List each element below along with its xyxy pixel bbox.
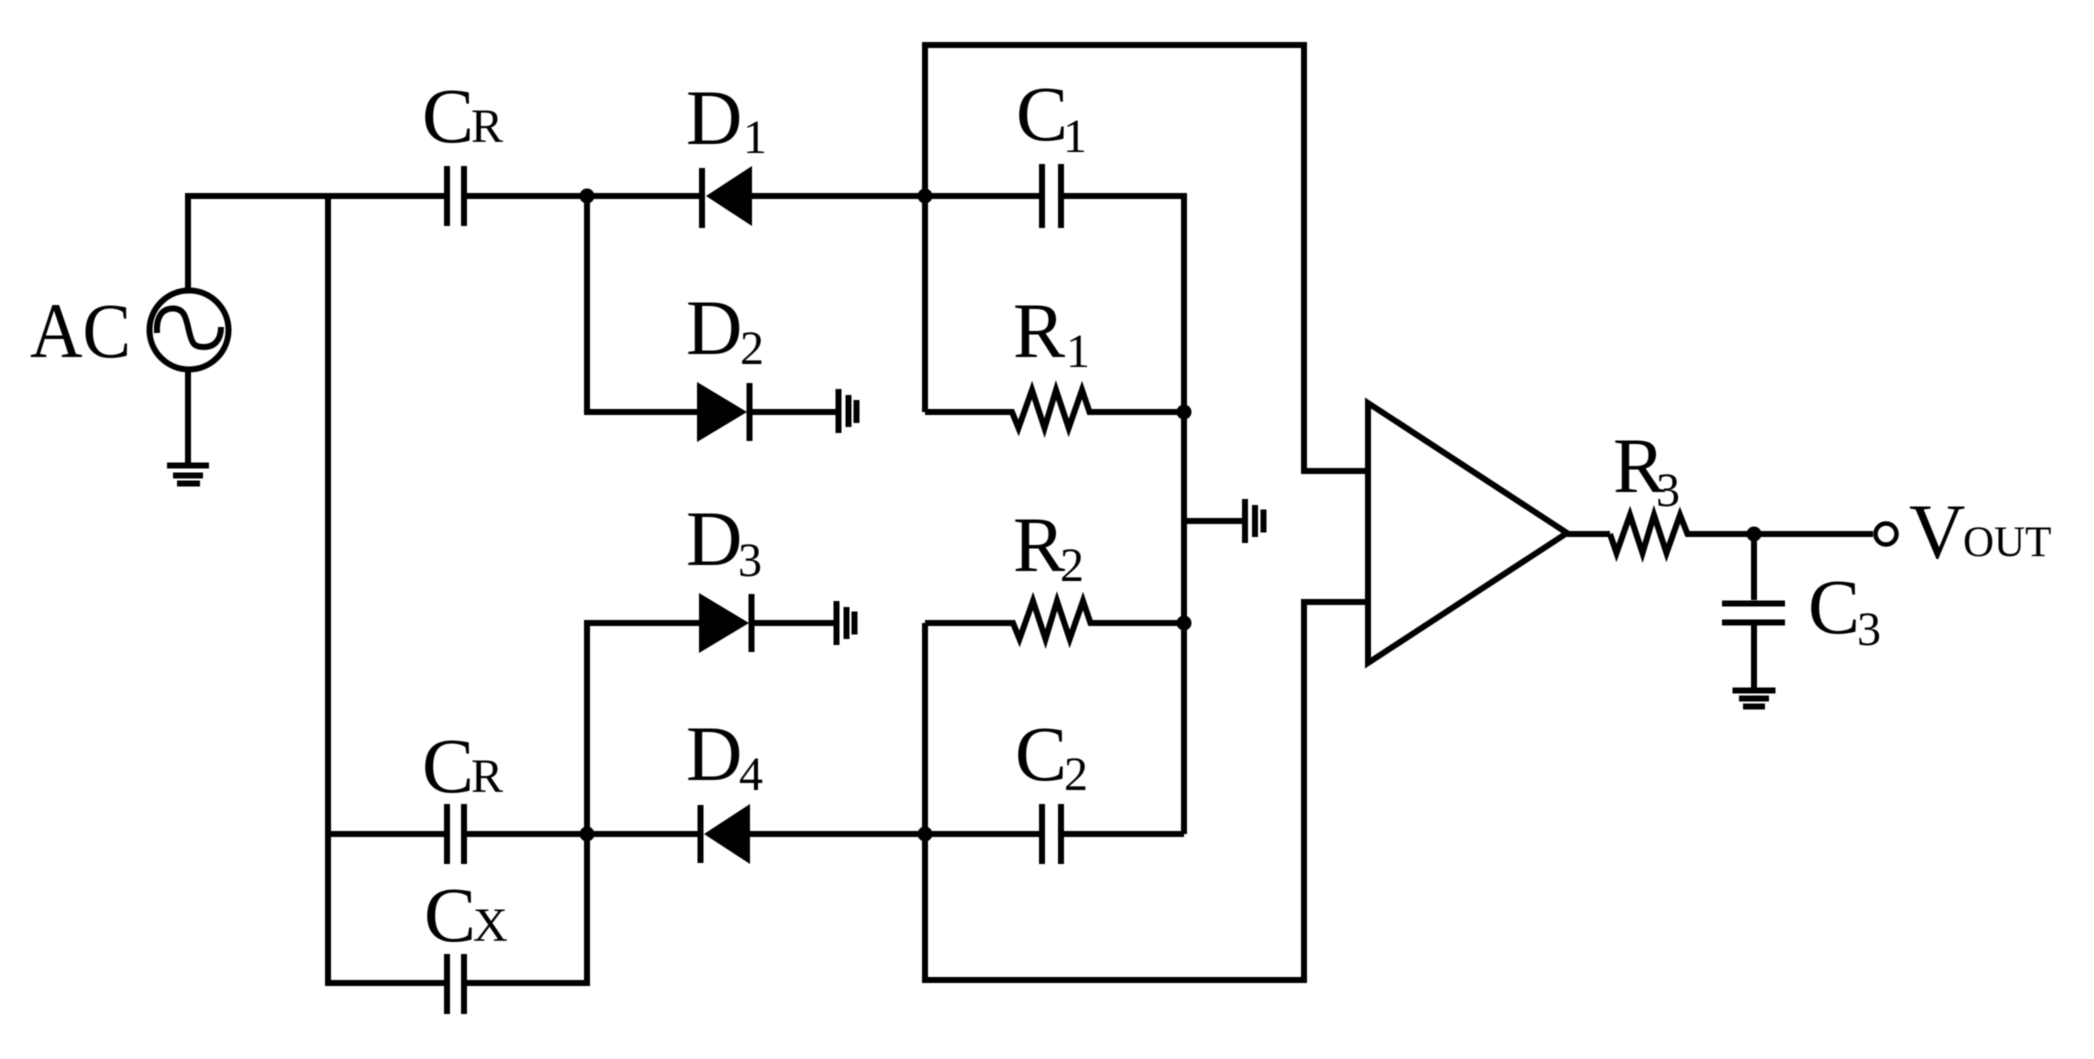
ground below AC (167, 466, 209, 484)
capacitor C1 (1042, 164, 1061, 228)
label CR bottom (422, 722, 503, 809)
capacitor C2 (1042, 804, 1061, 864)
wire left bus vertical and CX row left (328, 196, 444, 983)
label CX (424, 871, 508, 958)
node D junction dot (918, 827, 933, 842)
svg-text:3: 3 (1656, 464, 1680, 517)
wire D3 to ground (754, 620, 834, 626)
diode D2 (697, 382, 750, 442)
label R2 (1013, 501, 1084, 592)
wire top row and AC stem (188, 196, 444, 290)
svg-text:3: 3 (738, 534, 762, 587)
wire D2 branch from node A (587, 196, 697, 412)
label D1 (686, 74, 767, 164)
wire node B to C1 (925, 193, 1040, 199)
svg-text:2: 2 (740, 322, 764, 375)
capacitor C3 (1722, 604, 1785, 623)
ground right of D3 (837, 601, 855, 645)
wire bottom box to op-amp -input (925, 602, 1368, 980)
ground below C3 (1733, 691, 1776, 707)
label D3 (686, 495, 762, 587)
wire CR to node C (467, 831, 587, 837)
svg-text:R: R (1013, 287, 1065, 374)
svg-text:R: R (471, 750, 503, 803)
svg-text:V: V (1909, 488, 1965, 575)
svg-text:2: 2 (1064, 748, 1088, 801)
ground mid (op-amp reference) (1245, 499, 1264, 543)
svg-text:C: C (1015, 710, 1067, 797)
label C3 (1808, 563, 1881, 656)
svg-text:C: C (1808, 563, 1860, 650)
svg-text:D: D (686, 710, 742, 797)
ground right of D2 (839, 389, 857, 433)
capacitor CR (bottom) (447, 804, 464, 864)
wire mid ground stub (1184, 518, 1242, 524)
svg-text:2: 2 (1060, 539, 1084, 592)
svg-text:1: 1 (743, 111, 767, 164)
resistor R2 (925, 601, 1184, 639)
resistor R1 (925, 390, 1184, 428)
svg-text:R: R (471, 100, 503, 153)
wire CR bottom row from left bus (328, 831, 444, 837)
svg-text:D: D (686, 284, 742, 371)
wire C1 to right bus vertical (1064, 196, 1184, 834)
wire C3 top stem (1751, 534, 1757, 600)
capacitor CR (top) (447, 166, 464, 226)
diode D3 (699, 593, 752, 653)
wire CX row right to node C (467, 834, 587, 983)
terminal VOUT open circle (1876, 524, 1897, 545)
label CR top (422, 72, 503, 159)
label C2 (1015, 710, 1088, 801)
wire node C to D4 (587, 831, 698, 837)
svg-text:C: C (422, 722, 474, 809)
label VOUT (1909, 488, 2051, 575)
wire CR to node A (467, 193, 587, 199)
label D2 (686, 284, 764, 375)
wire D4 to node D (750, 831, 925, 837)
wire D1 to node B (752, 193, 925, 199)
AC source symbol U-AC (150, 291, 229, 370)
wire C3 bottom stem (1751, 625, 1757, 688)
svg-text:C: C (1016, 70, 1068, 157)
svg-text:R: R (1013, 501, 1065, 588)
capacitor CX (447, 954, 464, 1014)
node A junction dot (580, 189, 595, 204)
svg-text:AC: AC (30, 287, 131, 374)
label C1 (1016, 70, 1087, 163)
wire D3 branch to node C (587, 623, 699, 834)
label D4 (686, 710, 763, 801)
svg-text:3: 3 (1857, 603, 1881, 656)
wire node A to D1 (587, 193, 700, 199)
svg-text:X: X (473, 899, 508, 952)
node C junction dot (580, 827, 595, 842)
svg-text:1: 1 (1066, 325, 1090, 378)
svg-text:4: 4 (739, 748, 763, 801)
label R1 (1013, 287, 1090, 378)
diode D1 (702, 166, 752, 228)
wire AC bottom stem (185, 370, 191, 463)
AC source label (30, 287, 131, 374)
node B junction dot (918, 189, 933, 204)
diode D4 (701, 804, 751, 864)
op-amp U1 (1368, 403, 1567, 663)
wire node D to C2 (925, 831, 1040, 837)
node R1-right junction dot (1177, 405, 1192, 420)
wire top feedback box to op-amp +input (925, 45, 1368, 471)
svg-text:C: C (422, 72, 474, 159)
wire op-amp output (1567, 531, 1610, 537)
svg-text:OUT: OUT (1963, 519, 2051, 566)
node R2-right junction dot (1177, 616, 1192, 631)
svg-text:D: D (686, 495, 742, 582)
node E junction dot (1747, 527, 1762, 542)
wire C2 to right bus (1064, 831, 1184, 837)
svg-text:1: 1 (1063, 110, 1087, 163)
label R3 (1613, 422, 1680, 517)
svg-text:D: D (686, 74, 742, 161)
svg-text:C: C (424, 871, 476, 958)
wire D2 to ground (752, 409, 836, 415)
resistor R3 (1610, 515, 1873, 553)
